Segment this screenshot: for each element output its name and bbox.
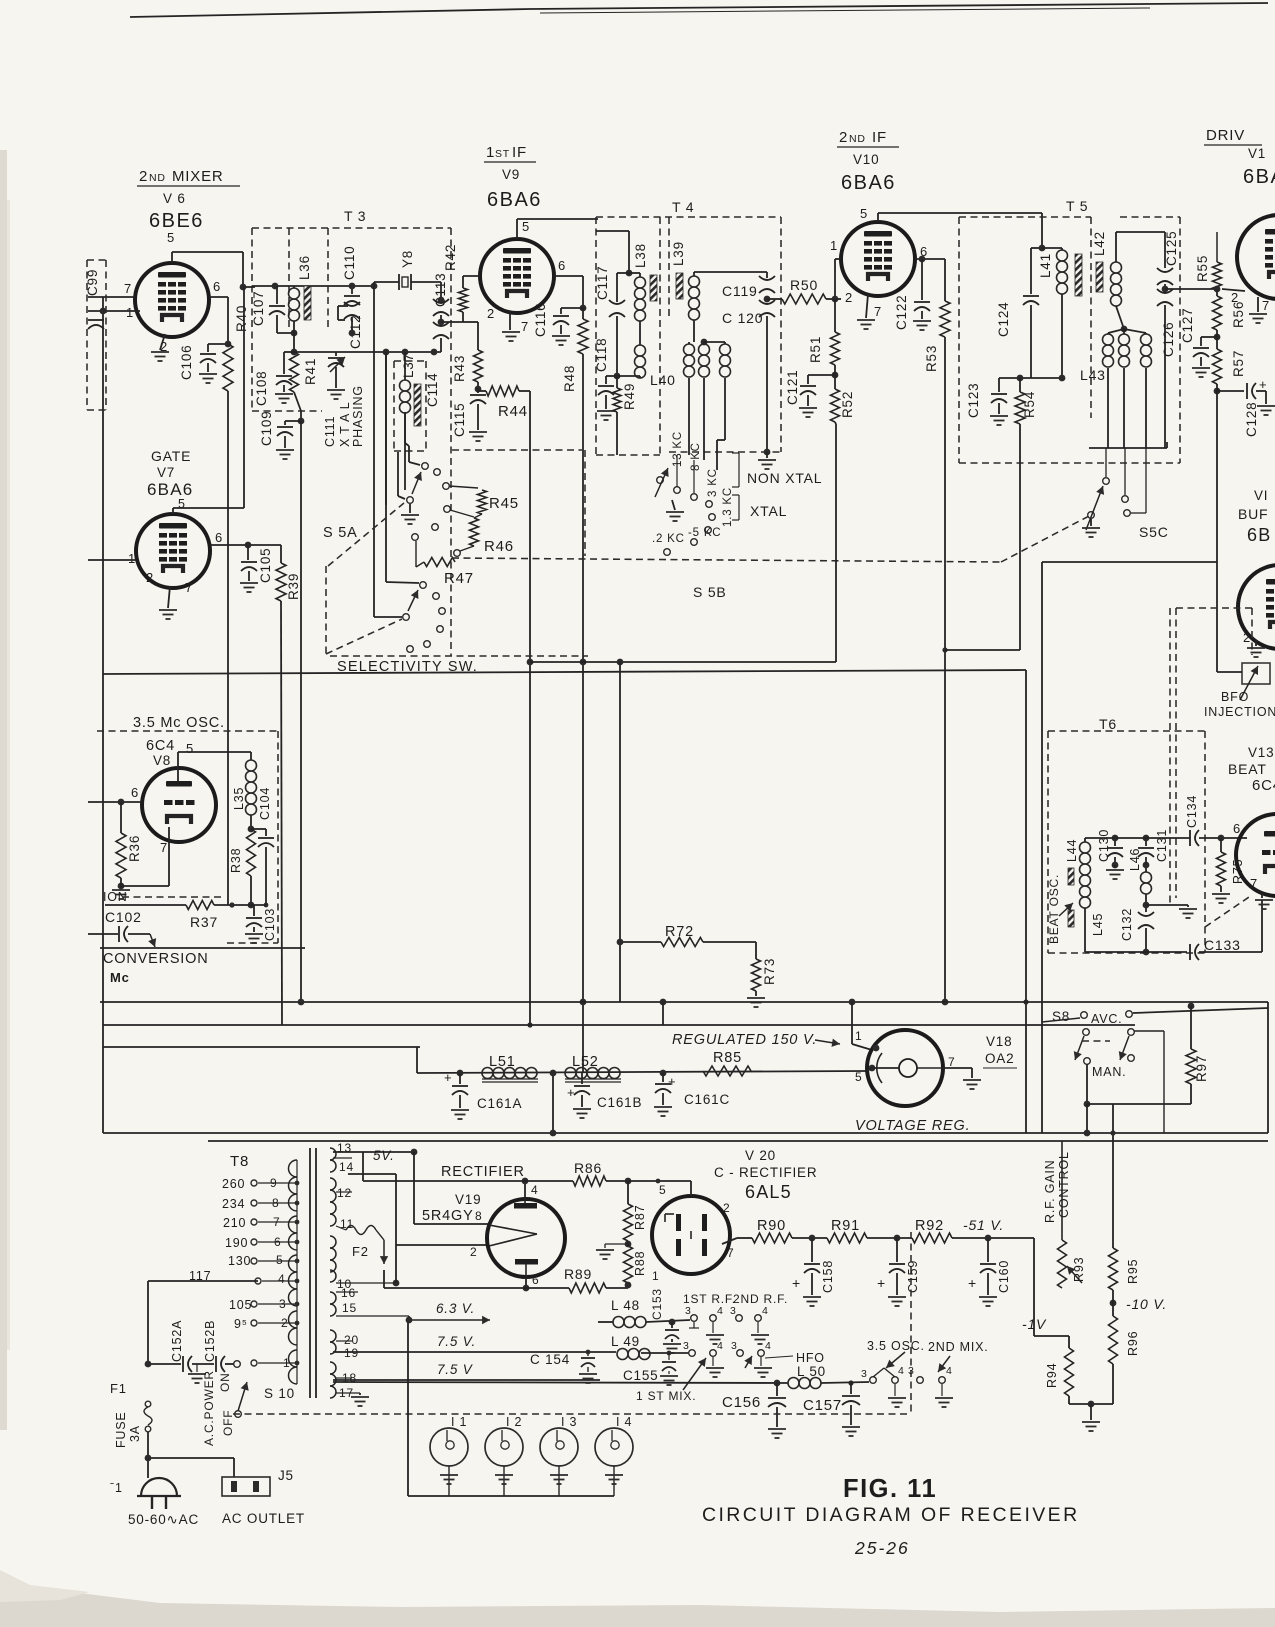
svg-text:C159: C159 xyxy=(906,1260,920,1293)
dashed S10 mechanical linkage xyxy=(233,1413,911,1415)
svg-text:20: 20 xyxy=(344,1333,359,1347)
wire T3 top bus from V6 xyxy=(243,286,255,288)
dashed T6 corner diagonal xyxy=(1205,895,1252,927)
dashed box 3.5Mc osc top xyxy=(97,730,278,732)
resistor R96 xyxy=(1109,1316,1118,1364)
svg-text:2ND R.F.: 2ND R.F. xyxy=(733,1292,788,1306)
inductor L42 core bar xyxy=(1096,262,1103,292)
dashed linkage to S5C xyxy=(1001,516,1089,562)
dashed box 3.5Mc osc right xyxy=(277,731,279,943)
wire between C152A C152B xyxy=(192,1363,214,1365)
svg-text:3: 3 xyxy=(683,1340,690,1352)
switch S5A arm contact xyxy=(407,497,414,504)
svg-text:R41: R41 xyxy=(303,358,318,385)
wire bus y1025 xyxy=(103,1024,1135,1026)
arrow C102 xyxy=(150,934,155,947)
ground C106 xyxy=(207,363,209,372)
resistor R39 xyxy=(280,545,282,563)
inductor L40 winding 1 xyxy=(688,342,690,344)
wire -1V link xyxy=(1034,1335,1069,1337)
svg-text:R46: R46 xyxy=(484,538,514,555)
capacitor C158 xyxy=(811,1238,813,1262)
svg-text:I 2: I 2 xyxy=(506,1415,522,1429)
top scan border line xyxy=(130,9,530,17)
svg-text:T 3: T 3 xyxy=(344,208,366,224)
svg-text:V7: V7 xyxy=(157,465,175,480)
svg-text:-5 KC: -5 KC xyxy=(688,527,721,539)
svg-text:L39: L39 xyxy=(671,241,686,266)
svg-text:8 KC: 8 KC xyxy=(690,442,702,471)
switch S10 contacts xyxy=(234,1361,241,1368)
svg-text:C153: C153 xyxy=(650,1288,664,1320)
svg-text:S8: S8 xyxy=(1052,1009,1070,1024)
svg-text:A.C.POWER: A.C.POWER xyxy=(202,1370,216,1446)
svg-text:2: 2 xyxy=(470,1245,477,1259)
wire L38 bottom xyxy=(639,376,641,378)
capacitor C152A xyxy=(182,1356,184,1372)
resistor R90 xyxy=(752,1233,792,1243)
ground 2nd RF contact xyxy=(757,1322,759,1333)
svg-text:C125: C125 xyxy=(1164,231,1179,266)
svg-text:R49: R49 xyxy=(622,383,637,410)
ground T4 bottom xyxy=(766,452,768,458)
svg-text:7: 7 xyxy=(160,840,168,855)
ground C105 xyxy=(248,571,250,581)
switch S5B contacts xyxy=(674,487,681,494)
svg-text:6B: 6B xyxy=(1247,525,1271,545)
ground C159 xyxy=(896,1273,898,1295)
resistor R52 xyxy=(834,365,836,389)
svg-text:HFO: HFO xyxy=(796,1351,825,1365)
dashed linkage S5A upper xyxy=(328,503,404,566)
svg-text:7: 7 xyxy=(1262,298,1270,313)
ground V10 xyxy=(857,320,875,329)
svg-text:C124: C124 xyxy=(996,302,1011,337)
wire T6 bottom bus xyxy=(1084,944,1086,952)
capacitor C161C xyxy=(660,1070,667,1077)
bracket NON XTAL xyxy=(738,453,740,487)
wire R47 left end xyxy=(416,562,424,567)
svg-text:L37: L37 xyxy=(401,353,416,378)
svg-text:2: 2 xyxy=(487,306,495,321)
capacitor C122 xyxy=(921,259,923,300)
svg-text:R45: R45 xyxy=(489,495,519,512)
inductor L41 xyxy=(1039,245,1046,252)
capacitor C116 xyxy=(553,315,569,317)
svg-text:F2: F2 xyxy=(352,1244,369,1259)
ground lamp I1 xyxy=(440,1475,458,1484)
svg-text:R91: R91 xyxy=(831,1218,860,1234)
svg-text:C118: C118 xyxy=(594,338,609,372)
wire L52 junction down to bus xyxy=(552,1073,554,1133)
capacitor C108 xyxy=(284,351,294,353)
ground 2nd mix contact xyxy=(941,1384,943,1396)
dashed linkage S5A lower xyxy=(326,619,402,654)
wire L39 to C119 xyxy=(694,271,767,273)
svg-text:3: 3 xyxy=(861,1368,868,1380)
svg-text:5V.: 5V. xyxy=(373,1148,395,1163)
svg-text:+: + xyxy=(792,1275,801,1291)
arrow R93 wiper xyxy=(1067,1266,1082,1283)
svg-text:6BA6: 6BA6 xyxy=(841,172,896,194)
svg-text:C111: C111 xyxy=(323,416,337,447)
svg-text:L38: L38 xyxy=(633,243,648,268)
svg-text:C123: C123 xyxy=(966,383,981,418)
wire S5A arm riser xyxy=(397,452,399,496)
wire V6 pin5 to T3 xyxy=(171,252,173,263)
wire S5C contact rail xyxy=(1089,447,1167,449)
resistor R86 xyxy=(573,1176,606,1186)
svg-text:3.5 Mc OSC.: 3.5 Mc OSC. xyxy=(133,715,225,731)
wire bus y1133 xyxy=(103,1132,1268,1134)
svg-text:+: + xyxy=(668,1074,676,1089)
svg-text:2: 2 xyxy=(839,129,848,146)
dashed linkage T3-T4 xyxy=(452,449,582,451)
wire R53 down long vertical xyxy=(944,337,946,1002)
svg-text:3: 3 xyxy=(685,1305,692,1317)
resistor R51 xyxy=(834,310,836,332)
T4 inner dashed dividers xyxy=(659,217,661,320)
svg-text:OFF: OFF xyxy=(221,1410,235,1436)
wire bus y1047 xyxy=(103,1046,420,1048)
resistor R38 xyxy=(247,829,256,876)
svg-text:2: 2 xyxy=(146,570,154,585)
resistor R48 xyxy=(582,308,584,319)
arrow BFO pot wiper xyxy=(1240,666,1258,700)
capacitor C117 xyxy=(617,272,629,274)
svg-text:BEAT: BEAT xyxy=(1228,761,1267,777)
wire V20 pin7 to R90 xyxy=(722,1238,737,1244)
wire C112 bracket xyxy=(338,305,348,307)
inductor L43 winding 3 xyxy=(1124,329,1146,333)
svg-text:R73: R73 xyxy=(762,958,777,985)
resistor R88 xyxy=(624,1246,633,1283)
ground C118 xyxy=(605,395,607,409)
svg-text:5: 5 xyxy=(276,1253,283,1267)
ground C122 xyxy=(921,311,923,319)
svg-text:C127: C127 xyxy=(1180,308,1195,343)
svg-text:F1: F1 xyxy=(110,1381,127,1396)
svg-text:2: 2 xyxy=(723,1201,730,1215)
capacitor C112 trimmer xyxy=(344,302,360,306)
svg-text:ND: ND xyxy=(149,172,166,184)
svg-text:C130: C130 xyxy=(1097,829,1111,862)
resistor R54 xyxy=(1019,378,1021,392)
capacitor C156 xyxy=(776,1383,778,1396)
wire R93 top riser xyxy=(1033,1238,1035,1336)
svg-text:C161A: C161A xyxy=(477,1096,522,1111)
wire 6.3V line xyxy=(408,1316,410,1320)
svg-text:R88: R88 xyxy=(633,1251,647,1276)
inductor L49 xyxy=(617,1349,650,1360)
capacitor C127 xyxy=(1201,336,1217,338)
svg-text:C102: C102 xyxy=(105,909,142,925)
switch S5A contact 6 xyxy=(412,534,419,541)
svg-text:+: + xyxy=(968,1275,977,1291)
wire V11 cathode ground xyxy=(1257,297,1259,312)
capacitor C126 xyxy=(1157,289,1173,293)
wire V10 pin5 to T5 xyxy=(877,213,879,222)
svg-text:V 6: V 6 xyxy=(163,191,186,206)
wire V7 pin1 xyxy=(88,559,136,561)
wire 117V feed xyxy=(148,1280,258,1282)
capacitor C119 xyxy=(766,272,768,278)
capacitor C123 xyxy=(998,378,1000,392)
svg-text:234: 234 xyxy=(222,1197,245,1211)
resistor R89 xyxy=(383,1270,385,1288)
svg-text:-1V: -1V xyxy=(1022,1316,1047,1332)
wire L41 bottom xyxy=(1061,294,1063,378)
wire L42 bottom xyxy=(1116,306,1124,329)
svg-text:CONTROL: CONTROL xyxy=(1057,1151,1071,1218)
resistor R94 xyxy=(1065,1348,1074,1396)
wire long bus y674 xyxy=(103,670,1026,674)
wire V6 pin1 xyxy=(88,310,140,312)
svg-text:19: 19 xyxy=(344,1346,359,1360)
svg-text:7: 7 xyxy=(948,1055,955,1069)
wire S10 to outlet xyxy=(147,1452,149,1460)
capacitor C104 xyxy=(251,828,266,830)
switch S8 MAN contacts xyxy=(1084,1058,1091,1065)
svg-text:25-26: 25-26 xyxy=(854,1538,910,1558)
switch S5A lower arm xyxy=(403,614,410,621)
resistor R46 xyxy=(450,510,474,517)
svg-text:6: 6 xyxy=(532,1273,539,1287)
wire L40 bottoms to switch xyxy=(688,378,690,455)
svg-text:R39: R39 xyxy=(286,573,301,600)
svg-text:-51 V.: -51 V. xyxy=(963,1217,1004,1233)
resistor R47 xyxy=(454,550,461,557)
capacitor C115 xyxy=(477,389,479,393)
svg-text:5: 5 xyxy=(855,1070,862,1084)
tube V8 (3.5Mc osc, 6C4) xyxy=(142,768,216,842)
svg-text:R94: R94 xyxy=(1045,1363,1059,1388)
ground C161A xyxy=(459,1095,461,1108)
svg-text:GATE: GATE xyxy=(151,448,191,464)
svg-text:6BA6: 6BA6 xyxy=(147,480,193,499)
switch S8 AVC contacts xyxy=(1081,1012,1088,1019)
ground C161B xyxy=(581,1095,583,1107)
ground lamp I3 xyxy=(550,1475,568,1484)
wire V18 pin1 from bus xyxy=(851,1002,853,1044)
ground C108 xyxy=(283,385,285,392)
svg-text:V13: V13 xyxy=(1248,745,1274,760)
switch S5A arrow xyxy=(412,472,421,494)
svg-text:6.3 V.: 6.3 V. xyxy=(436,1301,475,1316)
svg-text:L 49: L 49 xyxy=(611,1334,640,1349)
wire R44 down long vertical x530 xyxy=(529,391,531,1025)
wire L49 to contacts xyxy=(641,1352,690,1354)
transformer T8 secondary winding 16-15 xyxy=(330,1292,336,1304)
inductor L38 lower winding xyxy=(639,321,641,345)
ground C123 xyxy=(998,403,1000,414)
svg-text:C132: C132 xyxy=(1120,908,1134,941)
svg-text:50-60∿AC: 50-60∿AC xyxy=(128,1512,199,1527)
svg-text:BUF: BUF xyxy=(1238,506,1268,522)
capacitor C105 xyxy=(247,545,249,560)
svg-text:I 3: I 3 xyxy=(561,1415,577,1429)
svg-text:R37: R37 xyxy=(190,914,218,930)
wire V19 pin6 down xyxy=(525,1276,527,1288)
lamp I4 xyxy=(595,1428,633,1466)
svg-text:5: 5 xyxy=(659,1183,666,1197)
svg-text:V19: V19 xyxy=(455,1192,481,1207)
svg-text:R85: R85 xyxy=(713,1050,742,1066)
ground V9 xyxy=(502,332,520,341)
tube V10 (2nd IF, 6BA6) xyxy=(841,222,915,296)
resistor R92 xyxy=(912,1233,952,1243)
wire R40 down (long vertical to R37 node) xyxy=(227,391,229,905)
svg-text:ˉ1: ˉ1 xyxy=(110,1481,123,1495)
svg-text:1: 1 xyxy=(486,144,495,161)
inductor L38 core bar xyxy=(650,275,657,301)
svg-text:6AL5: 6AL5 xyxy=(745,1182,792,1202)
svg-text:FUSE: FUSE xyxy=(114,1411,128,1448)
ground R75 xyxy=(1220,886,1222,892)
lamp I1 xyxy=(430,1428,468,1466)
svg-text:L35: L35 xyxy=(232,787,246,810)
switch S8 arrows xyxy=(1075,1036,1084,1060)
wire 7.5V line 2 xyxy=(333,1379,600,1381)
plug P1 xyxy=(141,1478,177,1496)
tube V20 (C-rectifier 6AL5) xyxy=(652,1196,730,1274)
svg-text:4: 4 xyxy=(898,1365,905,1377)
switch S5A contacts xyxy=(422,463,429,470)
svg-text:R90: R90 xyxy=(757,1218,786,1234)
arrow HFO wafer xyxy=(745,1356,752,1368)
svg-text:C110: C110 xyxy=(342,246,357,280)
svg-text:7: 7 xyxy=(124,281,132,296)
capacitor C99 dashed box xyxy=(86,260,88,410)
fuse F2 xyxy=(346,1226,376,1235)
wire filter row y1073 xyxy=(416,1047,418,1073)
inductor L37 core bar xyxy=(414,384,421,426)
capacitor C111 trimmer xyxy=(335,352,337,356)
switch S5A lower contacts xyxy=(420,582,427,589)
resistor R91 xyxy=(827,1233,867,1243)
resistor R36 xyxy=(120,802,122,833)
svg-text:R42: R42 xyxy=(443,244,458,271)
wire tap10 to V19 pin2 xyxy=(393,1280,400,1287)
wire L43 taps down to S5C rail xyxy=(1107,368,1109,448)
node R38 bottom xyxy=(248,902,255,909)
resistor R53 xyxy=(944,259,946,301)
ground C128 xyxy=(1256,390,1266,392)
inductor L41 core bar xyxy=(1075,254,1082,296)
capacitor C161A xyxy=(457,1070,464,1077)
capacitor C114 xyxy=(433,322,449,326)
resistor R45 xyxy=(449,486,478,488)
svg-text:C99: C99 xyxy=(85,269,100,296)
capacitor C134 xyxy=(1189,830,1191,846)
wire x1026 down xyxy=(1025,670,1027,1133)
wire lamp I2 stem xyxy=(503,1466,505,1496)
svg-text:13 KC: 13 KC xyxy=(672,431,684,467)
svg-text:190: 190 xyxy=(225,1236,248,1250)
inductor L42 xyxy=(1115,232,1117,262)
wire V10 cathode ground xyxy=(866,294,868,318)
transformer T8 primary vertical link xyxy=(296,1160,298,1384)
wire R93 bottom xyxy=(1061,1288,1063,1404)
svg-text:C152A: C152A xyxy=(170,1320,184,1362)
capacitor C103 xyxy=(253,905,255,916)
svg-text:C117: C117 xyxy=(595,266,610,300)
tube V13 (beat osc, clipped) xyxy=(1236,814,1275,896)
tube V7 (gate, 6BA6) xyxy=(136,514,210,588)
svg-text:3 KC: 3 KC xyxy=(707,468,719,497)
switch S5C contacts xyxy=(1103,478,1110,485)
capacitor C125 xyxy=(1157,268,1173,272)
inductor L40 primary taps xyxy=(693,320,695,342)
svg-text:S 5B: S 5B xyxy=(693,584,727,600)
capacitor C160 xyxy=(987,1238,989,1262)
svg-text:C161B: C161B xyxy=(597,1095,642,1110)
ground C158 xyxy=(811,1273,813,1295)
T3 inner dashed box around L37 xyxy=(394,360,426,362)
resistor R40 xyxy=(223,344,233,391)
wire V8 pin6 grid xyxy=(88,801,142,803)
svg-text:DRIV: DRIV xyxy=(1206,127,1245,144)
wire V6 pin7 xyxy=(88,296,135,298)
wire R48 down long vertical xyxy=(582,354,584,1073)
switch S5A contact 5 xyxy=(432,524,439,531)
inductor L52 xyxy=(565,1068,620,1079)
svg-text:1ST R.F.: 1ST R.F. xyxy=(683,1292,736,1306)
ground S5B arm xyxy=(672,500,675,510)
svg-text:T 5: T 5 xyxy=(1066,198,1088,214)
svg-text:R44: R44 xyxy=(498,403,528,420)
wire lamp I3 stem xyxy=(558,1466,560,1496)
svg-text:NON XTAL: NON XTAL xyxy=(747,470,822,486)
svg-text:L 50: L 50 xyxy=(797,1364,826,1379)
svg-text:5: 5 xyxy=(167,230,175,245)
ground tap 17 xyxy=(359,1393,361,1395)
resistor R43 xyxy=(463,321,478,323)
svg-text:4: 4 xyxy=(765,1340,772,1352)
svg-text:+: + xyxy=(567,1085,575,1100)
wire R39 down long vertical xyxy=(281,601,282,1025)
switch S5C arrow xyxy=(1086,486,1103,530)
resistor R97 xyxy=(1190,1006,1192,1049)
inductor L38 xyxy=(629,272,640,274)
wire 5V to V19 filament pin8 xyxy=(411,1149,418,1156)
capacitor C113 xyxy=(440,282,442,301)
svg-text:7: 7 xyxy=(1250,876,1258,891)
svg-text:C114: C114 xyxy=(425,373,440,407)
transformer T8 secondary winding 11-10 xyxy=(330,1236,336,1248)
tube V6 (2nd mixer, 6BE6) xyxy=(135,263,209,337)
svg-text:4: 4 xyxy=(531,1183,538,1197)
wire F1 to plug xyxy=(147,1432,149,1478)
wire L48 to contacts xyxy=(646,1320,690,1322)
svg-text:REGULATED 150 V.: REGULATED 150 V. xyxy=(672,1032,817,1048)
wire L35 bottom node xyxy=(250,815,252,829)
svg-text:Mc: Mc xyxy=(110,970,130,985)
inductor L48 xyxy=(598,1321,613,1323)
resistor R73 xyxy=(755,942,757,959)
wire MAN loop to R97 xyxy=(1087,1103,1191,1105)
dashed RF gain linkage xyxy=(910,1232,912,1414)
arrow regulated 150V xyxy=(815,1040,840,1044)
arrow 3.5 osc wafer xyxy=(873,1368,884,1377)
capacitor C99 xyxy=(88,319,104,321)
svg-text:R96: R96 xyxy=(1126,1331,1140,1356)
ground V8 cathode xyxy=(120,886,122,888)
ground C160 xyxy=(987,1273,989,1295)
svg-text:L42: L42 xyxy=(1092,231,1107,256)
ground V6 cathode xyxy=(151,352,169,361)
svg-text:6: 6 xyxy=(215,530,223,545)
